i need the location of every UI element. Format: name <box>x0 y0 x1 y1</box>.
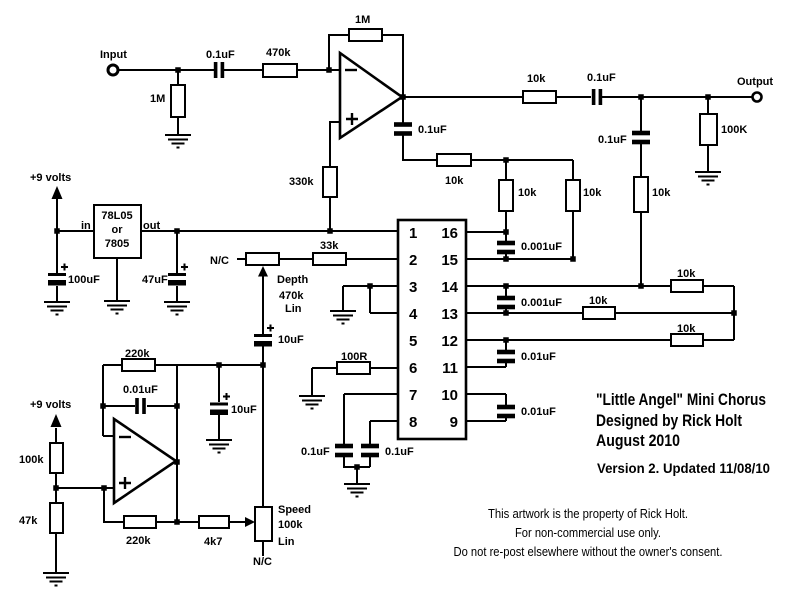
svg-text:6: 6 <box>409 360 417 377</box>
svg-text:or: or <box>112 224 124 236</box>
svg-text:1: 1 <box>409 225 417 242</box>
svg-text:2: 2 <box>409 252 417 269</box>
svg-text:Lin: Lin <box>278 536 295 548</box>
svg-text:10k: 10k <box>677 268 696 280</box>
svg-text:78L05: 78L05 <box>101 210 132 222</box>
svg-text:9: 9 <box>450 414 458 431</box>
svg-text:Input: Input <box>100 49 127 61</box>
svg-text:Do not re-post elsewhere witho: Do not re-post elsewhere without the own… <box>454 544 723 559</box>
svg-text:220k: 220k <box>125 348 150 360</box>
svg-text:0.1uF: 0.1uF <box>587 72 616 84</box>
svg-text:33k: 33k <box>320 240 339 252</box>
svg-text:100k: 100k <box>19 454 44 466</box>
svg-text:Output: Output <box>737 76 773 88</box>
svg-text:470k: 470k <box>266 47 291 59</box>
svg-text:N/C: N/C <box>210 255 229 267</box>
svg-text:0.1uF: 0.1uF <box>301 446 330 458</box>
svg-text:11: 11 <box>442 360 458 377</box>
svg-text:12: 12 <box>441 333 458 350</box>
svg-text:1M: 1M <box>150 93 165 105</box>
svg-text:10k: 10k <box>527 73 546 85</box>
svg-text:10k: 10k <box>652 187 671 199</box>
svg-text:100k: 100k <box>278 519 303 531</box>
svg-text:Speed: Speed <box>278 504 311 516</box>
svg-text:0.001uF: 0.001uF <box>521 297 562 309</box>
svg-text:14: 14 <box>441 279 458 296</box>
svg-text:100K: 100K <box>721 124 747 136</box>
svg-text:10uF: 10uF <box>278 334 304 346</box>
svg-text:Designed by Rick Holt: Designed by Rick Holt <box>596 411 742 430</box>
svg-text:7: 7 <box>409 387 417 404</box>
svg-text:1M: 1M <box>355 14 370 26</box>
svg-text:0.1uF: 0.1uF <box>385 446 414 458</box>
svg-text:This artwork is the property o: This artwork is the property of Rick Hol… <box>488 506 688 521</box>
svg-text:0.01uF: 0.01uF <box>521 351 556 363</box>
svg-text:100R: 100R <box>341 351 367 363</box>
svg-text:3: 3 <box>409 279 417 296</box>
svg-text:"Little Angel" Mini Chorus: "Little Angel" Mini Chorus <box>596 390 766 409</box>
svg-text:330k: 330k <box>289 176 314 188</box>
svg-text:4k7: 4k7 <box>204 536 222 548</box>
svg-text:220k: 220k <box>126 535 151 547</box>
svg-text:Lin: Lin <box>285 303 302 315</box>
svg-text:10uF: 10uF <box>231 404 257 416</box>
svg-text:August 2010: August 2010 <box>596 431 680 450</box>
svg-text:0.01uF: 0.01uF <box>123 384 158 396</box>
svg-text:470k: 470k <box>279 290 304 302</box>
svg-text:10: 10 <box>441 387 458 404</box>
svg-text:For non-commercial use only.: For non-commercial use only. <box>515 525 661 540</box>
svg-text:13: 13 <box>441 306 458 323</box>
svg-text:10k: 10k <box>583 187 602 199</box>
svg-text:4: 4 <box>409 306 418 323</box>
svg-text:47k: 47k <box>19 515 38 527</box>
svg-text:8: 8 <box>409 414 417 431</box>
svg-text:+9 volts: +9 volts <box>30 172 71 184</box>
svg-text:Depth: Depth <box>277 274 308 286</box>
svg-text:10k: 10k <box>445 175 464 187</box>
svg-text:in: in <box>81 220 91 232</box>
svg-text:16: 16 <box>441 225 458 242</box>
svg-text:Version 2. Updated 11/08/10: Version 2. Updated 11/08/10 <box>597 461 770 476</box>
svg-text:0.001uF: 0.001uF <box>521 241 562 253</box>
svg-text:47uF: 47uF <box>142 274 168 286</box>
svg-text:15: 15 <box>441 252 458 269</box>
svg-text:0.1uF: 0.1uF <box>598 134 627 146</box>
svg-text:out: out <box>143 220 160 232</box>
svg-text:10k: 10k <box>677 323 696 335</box>
svg-text:10k: 10k <box>589 295 608 307</box>
svg-text:5: 5 <box>409 333 417 350</box>
svg-text:N/C: N/C <box>253 556 272 568</box>
svg-text:10k: 10k <box>518 187 537 199</box>
svg-text:100uF: 100uF <box>68 274 100 286</box>
svg-text:0.1uF: 0.1uF <box>206 49 235 61</box>
svg-text:0.1uF: 0.1uF <box>418 124 447 136</box>
svg-text:0.01uF: 0.01uF <box>521 406 556 418</box>
svg-text:7805: 7805 <box>105 238 129 250</box>
svg-text:+9 volts: +9 volts <box>30 399 71 411</box>
